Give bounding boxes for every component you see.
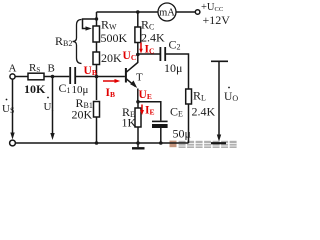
svg-text:IB: IB xyxy=(106,87,116,99)
svg-text:UC: UC xyxy=(123,50,137,62)
svg-text:CE: CE xyxy=(170,105,183,119)
svg-text:UE: UE xyxy=(139,89,152,101)
svg-text:RS: RS xyxy=(29,62,40,74)
svg-text:A: A xyxy=(9,63,17,75)
svg-text:C1: C1 xyxy=(59,81,71,95)
svg-text:C2: C2 xyxy=(169,38,181,52)
svg-text:mA: mA xyxy=(159,8,175,19)
svg-text:RB2: RB2 xyxy=(55,34,72,48)
svg-text:RW: RW xyxy=(101,18,117,32)
svg-text:10μ: 10μ xyxy=(164,61,182,75)
svg-text:10K: 10K xyxy=(24,82,46,96)
svg-text:1K: 1K xyxy=(122,116,137,130)
svg-text:UB: UB xyxy=(84,65,97,77)
svg-text:50μ: 50μ xyxy=(173,127,191,141)
svg-text:500K: 500K xyxy=(101,31,128,45)
svg-text:20K: 20K xyxy=(101,51,122,65)
svg-text:2.4K: 2.4K xyxy=(192,105,216,119)
svg-text:RC: RC xyxy=(141,18,154,32)
svg-text:T: T xyxy=(136,72,143,84)
svg-text:2.4K: 2.4K xyxy=(141,31,165,45)
svg-text:RL: RL xyxy=(193,89,206,103)
svg-text:10μ: 10μ xyxy=(72,84,89,96)
svg-text:IC: IC xyxy=(145,44,155,56)
svg-text:20K: 20K xyxy=(72,108,93,122)
svg-text:IE: IE xyxy=(145,105,155,117)
svg-text:UO: UO xyxy=(224,91,238,103)
svg-text:+12V: +12V xyxy=(203,13,231,27)
svg-text:+UCC: +UCC xyxy=(201,2,223,13)
svg-text:B: B xyxy=(48,63,55,75)
